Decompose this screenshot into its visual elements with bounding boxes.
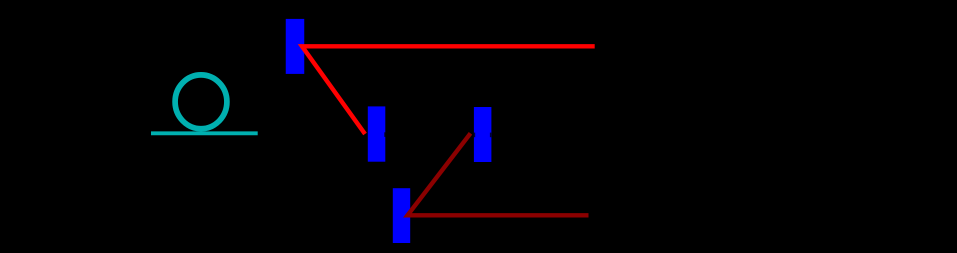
notch on bar 3 left edge [474,133,475,138]
dark red message polyline (diagonal to bar3 + horizontal from bar4) [408,133,589,215]
node baseline (teal horizontal line) [151,131,258,135]
red message polyline (diagonal to bar2 + horizontal from bar1) [302,46,595,134]
activation bar 2 [368,106,386,161]
activation bar 3 [474,107,492,162]
activation bar 1 [286,19,305,74]
notch on bar 3 right edge [490,133,491,138]
node circle (teal loop symbol) [175,75,227,129]
activation bar 4 [393,188,410,243]
notch on bar 2 right edge [384,132,385,137]
